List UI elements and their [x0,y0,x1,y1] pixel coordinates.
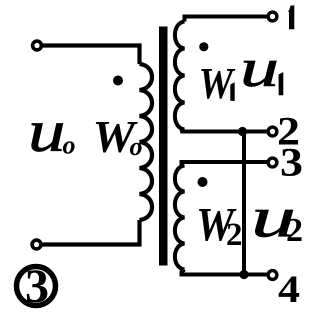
terminal 2 [268,127,277,136]
figure number circle 3 [17,267,56,306]
terminal 1 [268,12,277,21]
svg-text:W: W [199,59,236,108]
polarity dot W0 [113,76,123,86]
junction node 4 [239,270,248,279]
junction node 2 [238,127,247,136]
svg-text:2: 2 [286,212,303,249]
label 1 [288,6,294,30]
svg-text:4: 4 [278,268,300,311]
svg-text:3: 3 [25,260,49,313]
svg-text:3: 3 [280,140,303,185]
terminal (primary bottom-left) [32,240,41,249]
wire primary bottom [42,220,140,245]
wire primary top [42,46,140,65]
svg-text:u: u [240,38,279,98]
svg-text:o: o [130,132,143,161]
wire link 2-4 [242,132,246,275]
wire W2 bottom [182,270,268,275]
wire W2 top [182,162,268,166]
core [159,27,168,266]
svg-text:2: 2 [226,217,243,253]
polarity dot W1 [199,42,208,51]
wire W1 top [185,17,268,22]
terminal (primary top-left) [33,41,42,50]
winding W0 [140,64,153,220]
terminal 3 [268,158,277,167]
svg-text:o: o [63,131,76,160]
label u1 subscript [279,72,284,95]
polarity dot W2 [198,177,208,187]
winding W2 [175,166,185,270]
svg-text:u: u [28,98,66,164]
winding W1 [175,22,185,130]
wire W1 bottom [181,130,268,132]
terminal 4 [268,271,277,280]
label W1 subscript [230,82,234,101]
